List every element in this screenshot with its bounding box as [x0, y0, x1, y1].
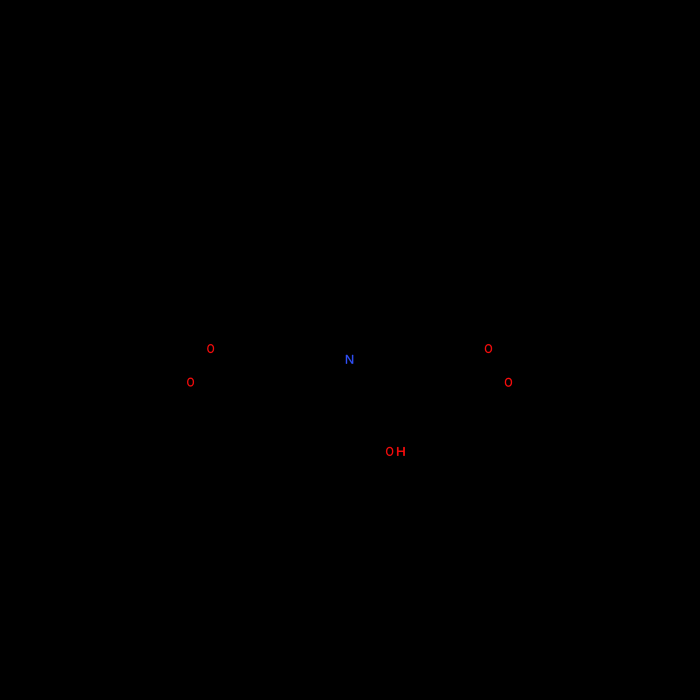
atom label: hydroxyl H of OH — [397, 447, 405, 456]
atom label: hydroxyl O of OH — [386, 447, 393, 456]
atom label: ester -O- of right ester — [505, 378, 512, 387]
atom label: carbonyl O of right ester — [485, 344, 492, 353]
atom label: ester -O- of left ester — [187, 378, 194, 387]
atom label: carbonyl O of left ester — [207, 344, 214, 353]
atom label: ring nitrogen N — [346, 355, 353, 364]
